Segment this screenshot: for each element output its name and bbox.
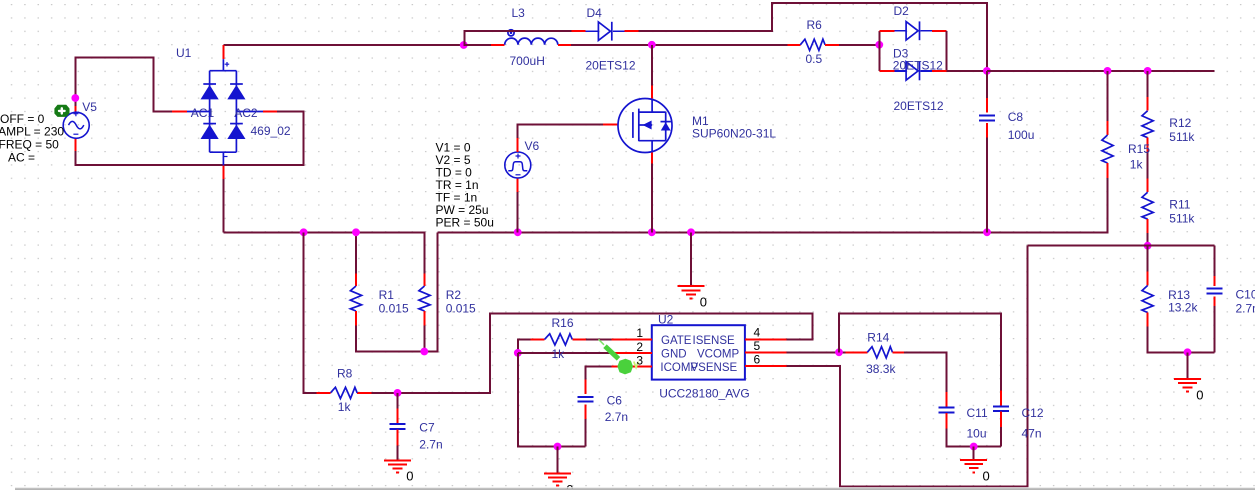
svg-text:1k: 1k	[552, 347, 566, 361]
window bottom scrollbar edge	[15, 487, 1255, 488]
resistor R11	[1142, 192, 1153, 219]
wire gnd node down	[518, 353, 585, 447]
ground 0 main rail	[678, 286, 705, 298]
wire pin2 to gnd node	[518, 352, 611, 354]
pin stub R16 left	[531, 338, 545, 340]
wire C10 bottom	[1214, 306, 1216, 352]
diode D2	[906, 21, 919, 40]
pin stub R8 left	[317, 392, 331, 394]
svg-text:R16: R16	[552, 316, 574, 330]
junction V6 minus	[514, 228, 522, 236]
junction M1 drain	[648, 41, 656, 49]
pin stub R15 lower	[1107, 163, 1109, 178]
wire R6 to D2 D3 split	[839, 44, 879, 46]
pin 4 stub ISENSE	[745, 338, 787, 340]
svg-text:20ETS12: 20ETS12	[893, 59, 943, 73]
svg-text:C10: C10	[1236, 287, 1255, 301]
resistor R16	[545, 334, 573, 345]
pin stub C11 bottom	[946, 413, 948, 429]
junction R2 bottom	[420, 348, 428, 356]
pin stub C6 bottom	[584, 405, 586, 419]
wire V6 minus	[517, 192, 519, 232]
svg-text:100u: 100u	[1008, 128, 1035, 142]
resistor R14	[867, 347, 892, 358]
svg-text:3: 3	[636, 353, 643, 367]
wire R2 bottom	[424, 326, 426, 352]
wire V6 to M1 gate	[518, 125, 603, 138]
wire riser to D4	[465, 31, 572, 45]
svg-text:R12: R12	[1169, 116, 1191, 130]
svg-text:1k: 1k	[1130, 157, 1144, 171]
svg-text:AC1: AC1	[191, 106, 215, 120]
pin stub R2 lower	[424, 311, 426, 326]
svg-text:0.5: 0.5	[806, 52, 823, 66]
svg-text:C6: C6	[607, 393, 623, 407]
junction V5 top	[71, 94, 79, 102]
svg-text:V6: V6	[525, 139, 540, 153]
svg-text:D2: D2	[894, 4, 910, 18]
svg-text:469_02: 469_02	[251, 124, 291, 138]
wire split up to D2	[878, 31, 880, 45]
pin stub L3 left	[491, 44, 505, 46]
pin 5 stub VCOMP	[745, 351, 787, 353]
pin stub R11 upper	[1147, 178, 1149, 192]
pin stub V6 plus	[517, 138, 519, 152]
svg-text:1: 1	[636, 326, 643, 340]
svg-text:R8: R8	[337, 366, 353, 380]
wire R13 bottom	[1148, 327, 1215, 353]
pin stub C12 bottom	[1000, 412, 1002, 427]
svg-text:PER = 50u: PER = 50u	[436, 216, 494, 230]
wire R16 left corner	[518, 339, 531, 353]
svg-text:GND: GND	[661, 348, 687, 360]
wire ISENSE route	[372, 313, 813, 393]
pin stub D4 anode	[572, 30, 586, 32]
svg-text:R6: R6	[807, 18, 823, 32]
capacitor C8	[979, 116, 995, 121]
svg-text:0: 0	[1196, 388, 1203, 403]
svg-text:AC =: AC =	[8, 150, 35, 164]
wire VCOMP up over to C12	[839, 313, 1001, 390]
junction R13 C10 ground	[1184, 348, 1192, 356]
svg-text:GATE: GATE	[661, 335, 692, 347]
svg-text:20ETS12: 20ETS12	[894, 99, 944, 113]
wire to ground C11	[973, 447, 975, 461]
wire to ground main	[690, 232, 692, 286]
resistor R2	[419, 286, 430, 311]
AC source V5	[63, 112, 89, 138]
pin stub D3 anode	[879, 70, 894, 72]
svg-text:R11: R11	[1169, 197, 1190, 211]
ground 0 under U2	[544, 473, 571, 485]
pin stub R6 right	[825, 44, 839, 46]
svg-text:V5: V5	[82, 100, 97, 114]
pin stub C11 top	[946, 392, 948, 407]
capacitor C7	[390, 424, 406, 429]
svg-text:2.7n: 2.7n	[419, 437, 442, 451]
pulse source V6	[505, 152, 531, 178]
pin stub M1 drain	[651, 86, 653, 99]
svg-text:C12: C12	[1022, 406, 1044, 420]
ground 0 under C11	[960, 460, 987, 472]
wire C8 top	[986, 71, 988, 98]
resistor R13	[1142, 286, 1153, 313]
wire pin5 to node	[787, 351, 846, 353]
pin stub R12 upper	[1147, 97, 1149, 111]
svg-text:2.7n: 2.7n	[605, 410, 628, 424]
pin stub D4 cathode	[624, 30, 638, 32]
resistor R6	[800, 39, 825, 50]
pin stub R16 right	[572, 338, 586, 340]
transistor M1	[618, 99, 672, 153]
svg-text:4: 4	[754, 326, 761, 340]
pin stub D3 cathode	[932, 70, 947, 72]
wire R13 top	[1147, 246, 1149, 272]
wire L3 to R6	[571, 44, 787, 46]
lead D4 anode	[586, 30, 599, 32]
pin stub bridge minus	[222, 166, 224, 180]
pin stub V6 minus	[517, 178, 519, 192]
capacitor C12	[993, 406, 1009, 411]
wire bridge plus output	[223, 44, 463, 46]
wire R16 to pin1	[586, 338, 611, 340]
resistor R1	[350, 286, 361, 311]
pin stub R8 right	[357, 392, 371, 394]
junction VCOMP node	[835, 348, 843, 356]
pin stub M1 source	[651, 152, 653, 163]
pin stub D2 anode	[879, 30, 894, 32]
wire C8 bottom	[986, 138, 988, 233]
wire V5 plus to bridge AC1	[76, 58, 173, 112]
svg-text:38.3k: 38.3k	[866, 362, 896, 376]
svg-text:2: 2	[636, 340, 643, 354]
wire shunt rail left segment	[223, 232, 424, 273]
junction rail R8 branch	[300, 228, 308, 236]
pin stub M1 gate	[603, 124, 618, 126]
wire R12 top	[1147, 71, 1149, 97]
L3 pin 1 marker	[508, 30, 514, 36]
wire R12 to R11	[1147, 152, 1149, 179]
svg-text:6: 6	[754, 352, 761, 366]
svg-text:47n: 47n	[1022, 426, 1042, 440]
pin stub C8 bottom	[986, 123, 988, 138]
junction R15 top	[1104, 67, 1112, 75]
capacitor C11	[939, 408, 955, 413]
svg-text:R14: R14	[867, 330, 889, 344]
pin stub C12 top	[1000, 391, 1002, 406]
pin stub R13 upper	[1147, 272, 1149, 286]
pin 1 stub GATE	[611, 338, 651, 340]
wire C6 top to pin3	[585, 366, 611, 379]
wire R11 bottom	[1147, 233, 1149, 246]
svg-text:0: 0	[700, 295, 707, 310]
junction U2 GND node	[514, 349, 522, 357]
wire pin6 route	[787, 246, 1028, 487]
lead D3 cathode	[921, 70, 932, 72]
capacitor C10	[1207, 289, 1223, 294]
svg-text:U2: U2	[658, 312, 674, 326]
wire split down to D3	[878, 45, 880, 71]
wire bridge minus to shunt rail	[222, 179, 224, 232]
pin stub R11 lower	[1147, 219, 1149, 233]
svg-text:C7: C7	[419, 420, 435, 434]
pin stub C6 top	[584, 379, 586, 394]
wire R15 top	[1107, 71, 1109, 123]
pin stub R12 lower	[1147, 138, 1149, 152]
pin stub R1 lower	[355, 311, 357, 326]
svg-text:0: 0	[983, 468, 990, 483]
resistor R12	[1142, 111, 1153, 138]
svg-text:0: 0	[406, 469, 413, 484]
pin stub bridge plus	[222, 45, 224, 59]
pin stub R6 left	[788, 44, 801, 46]
ground 0 under R13	[1174, 379, 1201, 391]
svg-text:L3: L3	[512, 6, 526, 20]
pin stub R14 left	[846, 351, 868, 353]
svg-text:C11: C11	[967, 406, 988, 420]
svg-text:2.7n: 2.7n	[1236, 301, 1255, 315]
junction output node C8	[983, 67, 991, 75]
pin stub R14 right	[893, 351, 905, 353]
lead D2 cathode	[921, 30, 932, 32]
pin stub R2 upper	[424, 274, 426, 287]
svg-text:R15: R15	[1128, 142, 1150, 156]
wire M1 drain	[651, 45, 653, 86]
pin 3 stub ICOMP	[611, 365, 651, 367]
junction VSENSE divider node	[1144, 242, 1152, 250]
pin stub R13 lower	[1147, 313, 1149, 327]
wire V5 minus to bridge AC2	[76, 112, 304, 166]
wire D2 down to output node	[946, 31, 948, 71]
svg-text:1k: 1k	[338, 400, 352, 414]
lead D2 anode	[895, 30, 907, 32]
bridge rectifier U1	[187, 59, 263, 165]
junction C6 ground tap	[554, 443, 562, 451]
lead D3 anode	[895, 70, 907, 72]
wire to L3	[464, 44, 491, 46]
junction M1 source	[648, 228, 656, 236]
pin stub C7 top	[397, 409, 399, 424]
capacitor C6	[577, 397, 593, 402]
wire output rail	[987, 70, 1215, 72]
junction C11 C12 ground	[970, 443, 978, 451]
pin stub R15 upper	[1107, 121, 1109, 135]
ground 0 under C7	[384, 460, 411, 472]
diode D4	[598, 22, 611, 41]
svg-text:5: 5	[754, 339, 761, 353]
lead D4 cathode	[613, 30, 624, 32]
wire source rail	[438, 178, 1108, 232]
svg-text:511k: 511k	[1169, 211, 1195, 225]
wire C6 bottom	[584, 419, 586, 447]
svg-text:D4: D4	[587, 6, 603, 20]
pin stub L3 right	[558, 44, 571, 46]
svg-text:VCOMP: VCOMP	[697, 348, 740, 360]
wire C12 bottom	[1000, 427, 1002, 447]
wire R14 to C11	[904, 352, 946, 392]
wire C7 to ground	[397, 445, 399, 460]
junction R1 top	[352, 228, 360, 236]
pin stub AC1	[172, 111, 187, 113]
svg-text:0.015: 0.015	[446, 302, 476, 316]
junction D2 D3 split	[875, 41, 883, 49]
wire to ground R13	[1187, 352, 1189, 379]
resistor R8	[330, 387, 357, 398]
inductor L3	[505, 38, 558, 45]
svg-text:10u: 10u	[967, 426, 987, 440]
wire R1 top	[355, 232, 357, 273]
pin 6 stub VSENSE	[745, 365, 787, 367]
pin stub C10 top	[1214, 276, 1216, 286]
resistor R15	[1102, 135, 1113, 163]
wire VSENSE node row	[1028, 245, 1215, 247]
wire D4 over the top	[638, 3, 987, 71]
junction L3 D4 split	[460, 41, 468, 49]
pin stub C7 bottom	[397, 429, 399, 445]
wire M1 source	[651, 164, 653, 233]
junction R12 top	[1144, 67, 1152, 75]
pin stub V5 minus	[75, 138, 77, 152]
op-amp U2 UCC28180_AVG box	[652, 325, 745, 379]
probe marker on U2 pin 3	[599, 339, 605, 345]
wire C7 top	[397, 393, 399, 409]
wire R8 left to rail	[304, 232, 317, 393]
svg-text:R1: R1	[379, 288, 395, 302]
svg-text:U1: U1	[176, 46, 192, 60]
junction R8 C7 node	[394, 389, 402, 397]
svg-text:20ETS12: 20ETS12	[586, 58, 636, 72]
junction C8 bottom	[983, 228, 991, 236]
svg-text:0.015: 0.015	[379, 302, 409, 316]
pin stub D2 cathode	[932, 30, 947, 32]
svg-text:ISENSE: ISENSE	[693, 335, 736, 347]
pin 2 stub GND	[611, 352, 651, 354]
pin stub AC2	[263, 111, 277, 113]
svg-text:SUP60N20-31L: SUP60N20-31L	[692, 126, 776, 140]
svg-text:R2: R2	[446, 288, 462, 302]
svg-text:511k: 511k	[1169, 130, 1195, 144]
svg-text:UCC28180_AVG: UCC28180_AVG	[659, 386, 750, 400]
pin stub V5 plus	[75, 106, 77, 115]
wire R1 R2 bottom to source rail riser	[356, 232, 438, 351]
voltage marker on V5	[54, 105, 69, 117]
svg-text:C8: C8	[1008, 110, 1024, 124]
wire C11 bottom	[947, 428, 1002, 446]
pin stub C8 top	[986, 98, 988, 113]
diode D3	[906, 62, 919, 81]
svg-text:AC2: AC2	[234, 106, 258, 120]
svg-text:VSENSE: VSENSE	[691, 362, 738, 374]
wire C10 top	[1214, 246, 1216, 277]
wire D3 to C8 node	[947, 70, 987, 72]
svg-text:700uH: 700uH	[510, 54, 545, 68]
svg-text:13.2k: 13.2k	[1168, 300, 1198, 314]
pin stub C10 bottom	[1214, 296, 1216, 306]
junction ground tap	[687, 228, 695, 236]
pin stub R1 upper	[355, 274, 357, 287]
wire to ground U2	[557, 447, 559, 474]
